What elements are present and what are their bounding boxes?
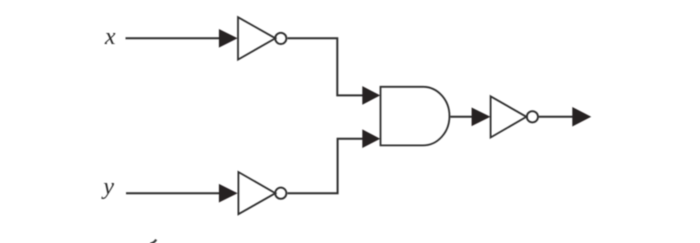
inverter U3 bubble	[275, 188, 286, 199]
wire U4 output to final arrowhead	[539, 116, 574, 118]
AND gate U2	[381, 87, 450, 146]
inverter U3 (bottom NOT gate) triangle	[238, 172, 275, 214]
arrowhead into inverter U1	[219, 29, 238, 48]
arrowhead into AND gate top input	[362, 86, 380, 105]
arrowhead into inverter U3	[219, 184, 238, 203]
wire U1 output to AND gate top input (node down then right)	[288, 38, 364, 95]
svg-text:y: y	[101, 174, 114, 200]
inverter U4 bubble	[527, 111, 538, 122]
inverter U1 (top NOT gate) triangle	[238, 17, 275, 59]
wire from x to inverter U1	[126, 37, 222, 39]
inverter U1 bubble	[275, 33, 286, 44]
partial caption mark ")" clipped at bottom edge	[150, 240, 156, 243]
arrowhead into inverter U4	[472, 108, 491, 127]
arrowhead into AND gate bottom input	[362, 129, 380, 148]
wire from y to inverter U3	[126, 192, 221, 194]
inverter U4 (output NOT gate) triangle	[491, 96, 527, 137]
wire AND gate output	[450, 116, 473, 118]
wire inverter U3 output to AND gate bottom input (node up then right)	[288, 139, 364, 194]
output arrowhead	[572, 107, 591, 127]
svg-text:x: x	[104, 24, 116, 50]
